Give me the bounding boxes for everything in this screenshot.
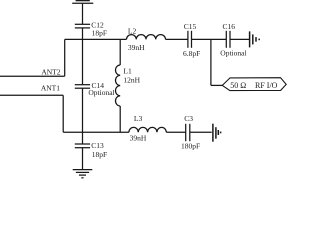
svg-text:180pF: 180pF: [181, 141, 200, 150]
wire: L1 bottom lead: [119, 106, 121, 132]
wire: L3 to C3: [166, 131, 185, 133]
wire: top bus node (ANT2 / C12 / C14 / L1 / L2): [65, 38, 127, 40]
svg-text:6.8pF: 6.8pF: [183, 49, 200, 58]
wire: C16 to right ground: [230, 38, 249, 40]
wire: top bus to C14: [82, 39, 84, 84]
svg-text:39nH: 39nH: [128, 43, 145, 52]
wire: top ground to C12: [82, 3, 84, 24]
svg-text:39nH: 39nH: [130, 133, 147, 142]
svg-text:ANT2: ANT2: [41, 67, 60, 76]
capacitor C16: [226, 31, 230, 48]
svg-text:C15: C15: [184, 22, 197, 31]
svg-text:18pF: 18pF: [92, 150, 107, 159]
svg-text:ANT1: ANT1: [41, 83, 60, 92]
ground (right of C16): [250, 31, 260, 47]
inductor L2: [127, 35, 166, 40]
capacitor C3: [186, 124, 190, 141]
wire: C14 to bottom bus: [82, 88, 84, 132]
wire: ANT1 drop to bottom bus: [62, 95, 64, 132]
svg-text:18pF: 18pF: [92, 28, 107, 37]
svg-text:C13: C13: [91, 141, 104, 150]
ground (top, above C12): [72, 1, 93, 4]
capacitor C13: [75, 144, 90, 148]
capacitor C15: [188, 31, 192, 48]
svg-text:C3: C3: [184, 114, 193, 123]
wire: bottom bus to C13: [82, 132, 84, 144]
ground (bottom, below C13): [73, 170, 93, 178]
svg-text:L3: L3: [134, 114, 143, 123]
svg-text:L2: L2: [128, 26, 137, 35]
wire: C3 to right ground: [190, 131, 212, 133]
inductor L3: [129, 127, 166, 132]
wire: bottom bus node (ANT1 / C13 / L1 / L3): [63, 131, 129, 133]
svg-text:12nH: 12nH: [123, 76, 140, 85]
wire: C15 to C16 (RF tap node): [192, 38, 227, 40]
capacitor C14: [75, 85, 90, 89]
wire: L1 top lead: [119, 39, 121, 65]
port flag 50 ohm RF I/O: [222, 78, 286, 91]
svg-text:Optional: Optional: [220, 48, 246, 57]
svg-text:50 Ω: 50 Ω: [230, 81, 246, 90]
ground (right of C3): [213, 124, 221, 142]
capacitor C12: [75, 24, 90, 28]
wire: RF tap to flag: [211, 84, 222, 86]
wire: C13 to bottom ground: [82, 148, 84, 170]
wire: ANT1 lead: [0, 94, 63, 96]
wire: ANT2 riser: [64, 39, 66, 76]
svg-text:Optional: Optional: [88, 88, 114, 97]
svg-text:C16: C16: [223, 22, 236, 31]
svg-text:RF I/O: RF I/O: [255, 81, 278, 90]
wire: RF tap drop: [210, 39, 212, 85]
svg-text:L1: L1: [123, 67, 132, 76]
inductor L1: [116, 65, 121, 106]
wire: C12 bottom to top bus: [82, 28, 84, 40]
wire: L2 to C15: [166, 38, 189, 40]
wire: ANT2 lead: [0, 75, 65, 77]
